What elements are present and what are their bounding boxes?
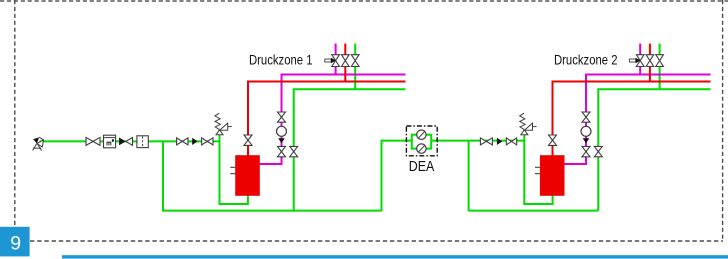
check valve CV2 <box>192 138 197 145</box>
wire: magenta tank1 outlet link <box>259 163 283 165</box>
wire: red stub below valve zone1 <box>344 65 346 81</box>
wire: DEA discharge drop <box>468 141 470 212</box>
valve magenta bottom zone2 <box>582 146 590 156</box>
wire: green stub above valve zone2 <box>659 44 661 57</box>
wire: safety riser x219.5 <box>219 135 221 205</box>
wire: green stub below valve zone1 <box>354 65 356 89</box>
svg-text:Druckzone 2: Druckzone 2 <box>554 52 618 68</box>
wire: red stub below valve zone2 <box>649 65 651 81</box>
pump P1 zone1 <box>277 126 287 136</box>
pump P2 zone2 <box>581 126 591 136</box>
drain arrow zone1 <box>325 58 336 63</box>
wire: magenta stub above valve zone2 <box>639 44 641 57</box>
wire: magenta pump column zone2 <box>585 75 587 166</box>
right dashed border <box>722 0 724 241</box>
inlet house-connection symbol <box>33 137 44 150</box>
valve V2 main line <box>177 138 188 145</box>
wire: DEA inlet line <box>381 140 413 142</box>
wire: green stub below valve zone2 <box>659 65 661 89</box>
tank B2 zone2 <box>540 155 565 196</box>
wire: magenta stub below valve zone2 <box>639 65 641 74</box>
check valve below pump zone1 <box>278 138 285 143</box>
wire: red tank2 riser <box>552 81 554 156</box>
wire: red header zone1 <box>247 81 406 83</box>
valve DZ1 red <box>341 55 349 67</box>
valve green riser zone2 <box>594 146 602 156</box>
valve V3 main line <box>202 138 213 145</box>
drain arrow zone2 <box>629 58 640 63</box>
bottom dashed border <box>30 240 723 242</box>
tank B2 level ticks <box>535 166 540 168</box>
wire: green distribution header zone1 <box>293 88 406 90</box>
bottom blue strip <box>62 255 728 258</box>
wire: red stub above valve zone2 <box>649 44 651 57</box>
safety valve SV2 <box>520 113 537 135</box>
wire: DEA pump loop <box>412 135 431 149</box>
valve DZ2 red <box>646 55 654 67</box>
safety valve SV1 <box>215 113 232 135</box>
wire: red stub above valve zone1 <box>344 44 346 57</box>
valve DZ1 magenta <box>332 55 340 67</box>
wire: red header zone2 <box>552 81 711 83</box>
valve green riser zone1 <box>290 146 298 156</box>
svg-text:9: 9 <box>10 232 21 254</box>
valve magenta top zone1 <box>278 112 286 122</box>
wire: green stub above valve zone1 <box>354 44 356 57</box>
wire: magenta stub below valve zone1 <box>335 65 337 74</box>
svg-text:Druckzone 1: Druckzone 1 <box>249 52 313 68</box>
wire: magenta stub above valve zone1 <box>335 44 337 57</box>
wire: left bottom manifold <box>162 210 382 212</box>
wire: red tank1 riser <box>247 81 249 156</box>
valve V5 zone2 line <box>506 138 516 145</box>
check valve CV3 zone2 <box>497 138 502 145</box>
filter <box>137 136 148 148</box>
wire: magenta pressure header zone2 <box>585 74 711 76</box>
wire: green riser column zone1 <box>293 89 295 210</box>
valve DZ2 magenta <box>636 55 644 67</box>
wire: DEA outlet line zone2 supply <box>431 140 524 142</box>
valve red riser zone1 <box>244 135 252 145</box>
check valve CV1 <box>119 138 132 146</box>
water meter <box>104 135 116 148</box>
svg-text:DEA: DEA <box>409 158 435 175</box>
page number box <box>0 227 30 257</box>
wire: right bottom manifold <box>469 210 599 212</box>
wire: main supply line zone1 <box>40 140 221 142</box>
wire: magenta tank2 outlet link <box>564 163 587 165</box>
valve DZ2 green <box>656 55 664 67</box>
wire: green riser column zone2 <box>597 89 599 210</box>
valve V1 main line <box>86 137 100 145</box>
top dashed border <box>0 0 728 2</box>
DEA pump lower <box>417 144 426 153</box>
wire: magenta pressure header zone1 <box>281 74 406 76</box>
wire: magenta pump column zone1 <box>281 75 283 166</box>
wire: tank2 feed link <box>523 195 552 204</box>
wire: tank1 feed link <box>219 195 248 204</box>
left dashed border <box>14 0 16 227</box>
wire: safety riser zone2 <box>523 135 525 205</box>
valve DZ1 green <box>351 55 359 67</box>
wire: DEA suction riser <box>381 140 383 212</box>
DEA cabinet box <box>406 126 437 156</box>
check valve below pump zone2 <box>583 138 590 143</box>
valve magenta top zone2 <box>582 112 590 122</box>
tank B1 level ticks <box>230 166 235 168</box>
valve red riser zone2 <box>549 135 557 145</box>
DEA pump upper <box>417 130 426 139</box>
wire: green distribution header zone2 <box>597 88 710 90</box>
tank B1 zone1 <box>235 155 260 196</box>
valve magenta bottom zone1 <box>278 146 286 156</box>
valve V4 zone2 line <box>480 138 492 145</box>
wire: bypass drop at x163 <box>162 141 164 211</box>
